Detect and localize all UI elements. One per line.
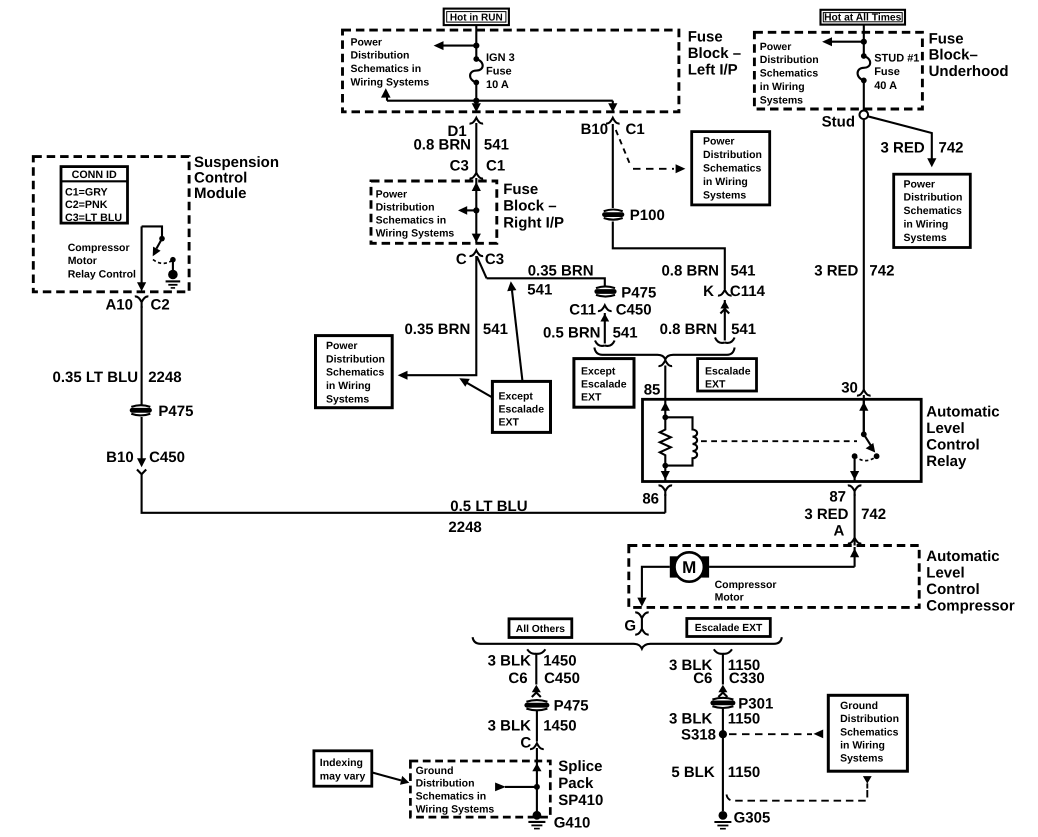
svg-text:P100: P100 <box>630 207 665 224</box>
svg-text:0.8 BRN: 0.8 BRN <box>413 137 471 154</box>
svg-text:0.35 BRN: 0.35 BRN <box>404 321 470 338</box>
svg-text:C3=LT BLU: C3=LT BLU <box>65 212 122 224</box>
svg-text:Right I/P: Right I/P <box>503 214 564 231</box>
label Splice Pack SP410 <box>558 758 603 809</box>
svg-text:S318: S318 <box>681 727 716 744</box>
svg-text:Level: Level <box>926 564 964 581</box>
svg-text:541: 541 <box>484 137 509 154</box>
wire hot at all times down <box>863 25 865 56</box>
svg-text:All Others: All Others <box>516 624 565 635</box>
arrow down exiting right IP <box>472 234 481 243</box>
svg-text:EXT: EXT <box>499 416 520 428</box>
dashed reference line from B10 <box>616 130 686 173</box>
ground (inside module) <box>166 270 181 288</box>
svg-text:Escalade EXT: Escalade EXT <box>695 623 763 634</box>
svg-text:1450: 1450 <box>543 717 576 734</box>
wire D1 to C3 <box>475 123 477 173</box>
title Suspension Control Module <box>194 154 279 202</box>
arrow up pin 30 inside relay <box>859 399 868 434</box>
svg-text:87: 87 <box>829 489 846 506</box>
label B10 C1 <box>581 121 645 138</box>
arrow down pin 87 inside relay <box>850 456 859 481</box>
svg-text:EXT: EXT <box>581 391 602 403</box>
suspension control module dashed box <box>33 157 189 292</box>
arrow up inside splice pack <box>532 763 541 771</box>
box Escalade EXT (near relay) <box>698 359 757 391</box>
title Fuse Block - Right I/P <box>503 181 564 231</box>
label C3 C1 <box>450 158 506 175</box>
svg-text:Automatic: Automatic <box>926 548 999 565</box>
label Compressor Motor <box>715 579 777 603</box>
arrow down at module edge <box>137 282 146 291</box>
wire A10 down <box>141 306 143 405</box>
wire end curl (K branch) <box>715 338 735 343</box>
svg-text:Fuse: Fuse <box>688 29 723 46</box>
svg-text:Distribution: Distribution <box>840 713 899 725</box>
wire escalade branch top <box>714 649 732 684</box>
svg-text:Fuse: Fuse <box>486 66 512 78</box>
splice pack dashed box <box>410 761 550 817</box>
label C11 C450 <box>569 302 651 319</box>
svg-text:Control: Control <box>194 169 247 186</box>
table CONN ID <box>61 167 128 224</box>
connector C <box>530 743 544 749</box>
wire arrow left inside left IP box <box>434 41 477 50</box>
arrow up-left at bus left end <box>381 88 391 100</box>
svg-text:1150: 1150 <box>728 711 761 728</box>
arrow up entering right IP <box>472 182 481 191</box>
svg-text:EXT: EXT <box>705 379 726 391</box>
text Compressor Motor Relay Control <box>68 242 136 281</box>
svg-text:10 A: 10 A <box>486 79 509 91</box>
wire P475 to splice pack <box>536 711 538 742</box>
svg-text:C6: C6 <box>693 670 712 687</box>
arrow up connector C330 <box>718 685 727 697</box>
wire fuse down to bus <box>475 83 477 101</box>
label 0.5 BRN 541 <box>543 325 638 342</box>
svg-text:Suspension: Suspension <box>194 154 279 171</box>
wire fuse to stud <box>863 80 865 110</box>
svg-text:Schematics in: Schematics in <box>416 791 487 803</box>
brace all others / escalade split <box>473 637 782 649</box>
wire brace to relay <box>664 366 666 400</box>
svg-text:A10: A10 <box>105 296 133 313</box>
label All Others box <box>509 619 572 638</box>
arrow down B10 C450 <box>137 458 146 474</box>
wire P100 down and right to K <box>613 222 725 290</box>
label 0.35 BRN 541 (vertical run) <box>404 321 507 338</box>
svg-text:Systems: Systems <box>326 394 369 406</box>
svg-text:Systems: Systems <box>760 94 803 106</box>
svg-text:C2: C2 <box>151 296 170 313</box>
svg-text:Relay Control: Relay Control <box>68 269 136 281</box>
wire bus right end down to B10 <box>612 101 614 104</box>
svg-text:Compressor: Compressor <box>68 242 130 254</box>
wire arrow left inside underhood <box>822 37 864 46</box>
svg-text:Power: Power <box>760 41 792 53</box>
svg-text:C450: C450 <box>149 449 185 466</box>
label 3 RED 742 (pin 87) <box>804 506 886 523</box>
svg-text:in Wiring: in Wiring <box>760 81 805 93</box>
wire 0.35 BRN down from C <box>405 256 477 375</box>
svg-text:C330: C330 <box>729 670 765 687</box>
svg-text:C3: C3 <box>485 251 504 268</box>
svg-text:Wiring Systems: Wiring Systems <box>416 803 495 815</box>
svg-text:Compressor: Compressor <box>926 597 1015 614</box>
svg-text:85: 85 <box>644 381 661 398</box>
svg-text:C114: C114 <box>730 283 766 300</box>
connector 85 feed <box>659 360 673 366</box>
svg-text:G305: G305 <box>734 809 771 826</box>
box Except Escalade EXT (near relay) <box>574 359 634 408</box>
connector C C3 <box>470 250 484 256</box>
label Hot in RUN <box>444 9 509 26</box>
node junction dot underhood <box>861 39 867 45</box>
svg-text:3 RED: 3 RED <box>814 262 858 279</box>
text power distribution schematics in wiring systems (right IP) <box>376 189 455 240</box>
svg-text:0.5 LT BLU: 0.5 LT BLU <box>450 498 527 515</box>
wire motor return to G <box>642 567 670 598</box>
svg-text:0.8 BRN: 0.8 BRN <box>661 262 719 279</box>
svg-text:0.35 BRN: 0.35 BRN <box>528 262 594 279</box>
svg-text:541: 541 <box>527 282 552 299</box>
connector 87 <box>848 485 862 496</box>
wire arrow left inside splice pack <box>495 783 537 792</box>
label C6 C450 <box>508 670 580 687</box>
text power distribution schematics in wiring systems (left IP) <box>351 36 430 88</box>
wire arrow left inside right IP <box>458 206 476 215</box>
connector A10 C2 <box>135 296 149 308</box>
svg-text:541: 541 <box>731 321 756 338</box>
svg-text:Ground: Ground <box>416 765 454 777</box>
svg-text:Wiring Systems: Wiring Systems <box>351 77 430 89</box>
wire P301 to ground <box>722 709 724 812</box>
svg-text:Wiring Systems: Wiring Systems <box>376 228 455 240</box>
svg-text:742: 742 <box>939 140 964 157</box>
box ground distribution schematics <box>828 695 907 771</box>
arrow down into power box (top right) <box>927 158 936 167</box>
svg-text:Control: Control <box>926 436 979 453</box>
fuse block underhood dashed box <box>754 32 922 109</box>
connector 86 <box>659 485 673 496</box>
svg-text:Motor: Motor <box>715 591 744 603</box>
svg-text:B10: B10 <box>106 449 134 466</box>
label 3 RED 742 (mid right) <box>814 262 894 279</box>
brace except-escalade merge <box>594 348 734 360</box>
svg-text:Block –: Block – <box>688 45 741 62</box>
arrow up connector C450 <box>532 685 541 697</box>
wire from Hot in RUN down <box>475 25 477 59</box>
label Escalade EXT box <box>687 619 771 637</box>
svg-text:Control: Control <box>926 581 979 598</box>
svg-text:Fuse: Fuse <box>503 181 538 198</box>
svg-text:Left I/P: Left I/P <box>688 61 738 78</box>
svg-text:Power: Power <box>376 189 408 201</box>
switch compressor motor relay control <box>142 226 176 270</box>
ground G410 <box>528 811 545 829</box>
connector C11 C450 <box>598 305 612 311</box>
wire P100 branch vertical <box>612 124 614 208</box>
label A10 C2 <box>105 296 169 313</box>
svg-text:742: 742 <box>869 262 894 279</box>
label C6 C330 <box>693 670 765 687</box>
label 3 BLK 1150 (lower) <box>669 711 760 728</box>
wire 30 into relay <box>863 395 865 434</box>
dashed reference ground box to G305 <box>727 790 868 801</box>
label 5 BLK 1150 <box>671 764 760 781</box>
wire pin 87 down to compressor <box>854 494 856 546</box>
svg-text:0.8 BRN: 0.8 BRN <box>660 321 718 338</box>
label B10 C450 <box>106 449 185 466</box>
wire diagonal from C3 connector <box>477 257 487 279</box>
svg-text:Schematics: Schematics <box>840 726 899 738</box>
svg-text:30: 30 <box>841 380 858 397</box>
svg-text:in Wiring: in Wiring <box>840 740 885 752</box>
svg-text:Distribution: Distribution <box>416 778 475 790</box>
inductor relay coil <box>665 417 697 465</box>
svg-text:Automatic: Automatic <box>926 403 999 420</box>
node junction dot <box>473 43 479 49</box>
svg-text:Motor: Motor <box>68 255 97 267</box>
splice P475 center <box>594 286 616 296</box>
arrow up pin A inside compressor <box>850 547 859 567</box>
label Hot at All Times <box>821 10 906 25</box>
svg-text:Schematics: Schematics <box>703 163 762 175</box>
svg-text:Escalade: Escalade <box>705 366 751 378</box>
svg-text:541: 541 <box>483 321 508 338</box>
svg-text:Distribution: Distribution <box>326 353 385 365</box>
svg-text:P475: P475 <box>621 284 656 301</box>
svg-text:40 A: 40 A <box>874 80 897 92</box>
connector A <box>848 538 862 544</box>
svg-text:Systems: Systems <box>840 753 883 765</box>
box power distribution schematics (mid left) <box>316 336 393 408</box>
svg-text:Schematics in: Schematics in <box>376 215 447 227</box>
fuse IGN 3 10 A <box>470 52 515 91</box>
dashed reference S318 to ground box <box>729 730 823 739</box>
label Indexing may vary box <box>314 751 372 786</box>
arrow down at compressor edge <box>637 598 646 607</box>
label 0.35 BRN 541 (horizontal run) <box>527 262 593 298</box>
label 0.5 LT BLU 2248 <box>448 498 527 536</box>
svg-text:Distribution: Distribution <box>904 192 963 204</box>
svg-text:Fuse: Fuse <box>929 31 964 48</box>
svg-text:in Wiring: in Wiring <box>326 380 371 392</box>
label 0.8 BRN 541 (below K) <box>660 321 756 338</box>
svg-text:Except: Except <box>581 365 616 377</box>
splice P475 (left) <box>130 405 152 415</box>
wire 0.5 LT BLU long run <box>142 474 666 513</box>
fuse block right IP dashed box <box>371 181 497 243</box>
label 0.8 BRN 541 <box>413 137 508 154</box>
svg-text:Schematics in: Schematics in <box>351 63 422 75</box>
box Except Escalade EXT (callout) <box>492 381 550 432</box>
svg-text:2248: 2248 <box>148 369 181 386</box>
node junction dot on bus <box>473 98 479 104</box>
label C C3 <box>456 251 504 268</box>
relay box automatic level control relay <box>643 399 922 481</box>
svg-text:Underhood: Underhood <box>929 63 1009 80</box>
title Automatic Level Control Relay <box>926 403 999 470</box>
svg-text:Indexing: Indexing <box>320 757 363 769</box>
svg-text:Power: Power <box>703 136 735 148</box>
wire 0.35 BRN horizontal to P475 <box>487 278 605 287</box>
text power distribution schematics (underhood) <box>760 41 819 107</box>
svg-text:Module: Module <box>194 185 247 202</box>
svg-text:Hot in RUN: Hot in RUN <box>450 13 503 24</box>
svg-text:Power: Power <box>326 340 358 352</box>
label 0.8 BRN 541 (above K) <box>661 262 755 279</box>
connector C3 C1 <box>470 173 484 179</box>
svg-text:Ground: Ground <box>840 700 878 712</box>
svg-text:Distribution: Distribution <box>760 54 819 66</box>
svg-text:0.35 LT BLU: 0.35 LT BLU <box>53 369 139 386</box>
svg-text:may vary: may vary <box>320 770 366 782</box>
svg-text:Distribution: Distribution <box>703 149 762 161</box>
wire into splice pack <box>536 748 538 811</box>
label K C114 <box>703 283 765 300</box>
svg-text:3 RED: 3 RED <box>804 506 848 523</box>
svg-text:3 BLK: 3 BLK <box>488 717 532 734</box>
svg-text:Block –: Block – <box>503 198 556 215</box>
arrow down at B10 exit <box>608 103 617 112</box>
title Fuse Block - Underhood <box>929 31 1009 80</box>
ground G305 <box>714 811 731 829</box>
svg-text:Level: Level <box>926 420 964 437</box>
splice P100 <box>602 210 624 220</box>
wire pin 86 down to 0.5 LT BLU <box>664 494 666 513</box>
svg-text:Escalade: Escalade <box>581 378 627 390</box>
svg-text:742: 742 <box>861 506 886 523</box>
svg-text:P475: P475 <box>554 697 589 714</box>
svg-text:K: K <box>703 283 714 300</box>
svg-text:IGN 3: IGN 3 <box>486 52 515 64</box>
svg-text:3 BLK: 3 BLK <box>488 652 532 669</box>
node S318 junction dot <box>719 730 727 738</box>
svg-text:Systems: Systems <box>703 189 746 201</box>
svg-text:Hot at All Times: Hot at All Times <box>824 12 902 23</box>
svg-text:3 RED: 3 RED <box>881 140 925 157</box>
svg-text:541: 541 <box>731 262 756 279</box>
arrow indexing to splice pack <box>372 772 410 784</box>
svg-text:C11: C11 <box>569 302 596 319</box>
svg-text:Pack: Pack <box>558 775 594 792</box>
wire motor feed <box>709 566 855 568</box>
svg-text:Relay: Relay <box>926 453 967 470</box>
arrow up below C11 connector <box>600 313 609 344</box>
svg-text:SP410: SP410 <box>558 792 603 809</box>
wire diagonal from stud to ref arrow <box>868 116 932 158</box>
connector B10 C1 <box>606 118 620 124</box>
label 3 RED 742 (top right) <box>881 140 964 157</box>
svg-text:541: 541 <box>613 325 638 342</box>
label 3 BLK 1450 (lower) <box>488 717 577 734</box>
svg-text:STUD #1: STUD #1 <box>874 52 919 64</box>
svg-text:Systems: Systems <box>904 232 947 244</box>
svg-text:C: C <box>456 251 467 268</box>
box power distribution schematics (top middle) <box>692 132 770 205</box>
label 0.35 LT BLU 2248 <box>53 369 182 386</box>
switch relay contacts <box>852 431 880 460</box>
svg-text:Schematics: Schematics <box>904 205 963 217</box>
node coil bottom junction <box>662 463 668 469</box>
wire stud down to relay 30 <box>863 119 865 390</box>
svg-text:Fuse: Fuse <box>874 66 900 78</box>
svg-text:5 BLK: 5 BLK <box>671 764 715 781</box>
svg-text:Stud: Stud <box>822 114 855 131</box>
arrow left into power box (mid left) <box>398 371 408 380</box>
svg-text:G410: G410 <box>554 814 591 831</box>
title Automatic Level Control Compressor <box>926 548 1015 615</box>
svg-text:Schematics: Schematics <box>326 367 385 379</box>
svg-text:CONN ID: CONN ID <box>72 169 117 181</box>
svg-text:1150: 1150 <box>728 764 761 781</box>
svg-text:Escalade: Escalade <box>499 403 545 415</box>
arrow up below K connector <box>720 300 729 341</box>
svg-text:1450: 1450 <box>543 652 576 669</box>
motor compressor M <box>670 552 709 581</box>
svg-text:M: M <box>682 558 696 577</box>
svg-text:Distribution: Distribution <box>376 202 435 214</box>
svg-text:C3: C3 <box>450 158 469 175</box>
svg-text:C450: C450 <box>544 670 580 687</box>
svg-text:2248: 2248 <box>448 519 481 536</box>
svg-text:G: G <box>624 618 636 635</box>
wire P475 to B10 <box>141 417 143 459</box>
svg-text:C1=GRY: C1=GRY <box>65 187 108 199</box>
arrow down pin 86 inside relay <box>661 466 670 482</box>
svg-text:Power: Power <box>351 36 383 48</box>
arrow up pin 85 inside relay <box>661 399 670 417</box>
splice P301 <box>710 698 735 708</box>
fuse STUD 1 40 A <box>858 52 920 92</box>
dashed actuation line <box>701 440 857 442</box>
text ground distribution schematics (splice pack) <box>416 765 495 815</box>
svg-text:3 BLK: 3 BLK <box>669 711 713 728</box>
box power distribution schematics (top right) <box>894 174 971 247</box>
splice P475 (bottom) <box>524 700 549 710</box>
svg-text:86: 86 <box>642 490 659 507</box>
fuse block left IP dashed box <box>343 30 679 112</box>
svg-text:Splice: Splice <box>558 758 602 775</box>
wire end curl 0.5 BRN <box>595 341 615 346</box>
svg-text:Compressor: Compressor <box>715 579 777 591</box>
resistor relay coil shunt <box>660 417 671 465</box>
compressor dashed box <box>629 546 919 608</box>
svg-text:0.5 BRN: 0.5 BRN <box>543 325 601 342</box>
connector K C114 <box>718 290 732 296</box>
svg-text:Schematics: Schematics <box>760 68 819 80</box>
wire all others branch top <box>527 649 545 684</box>
svg-text:Power: Power <box>904 178 936 190</box>
wire horizontal bus in left IP box <box>387 100 613 102</box>
arrow callout to 0.35 BRN wire <box>507 281 522 381</box>
node SP410 junction dot <box>534 784 540 790</box>
label 3 BLK 1450 (upper) <box>488 652 577 669</box>
title Fuse Block - Left I/P <box>688 29 741 79</box>
svg-text:Block–: Block– <box>929 47 978 64</box>
svg-text:B10: B10 <box>581 121 609 138</box>
svg-text:C2=PNK: C2=PNK <box>65 199 108 211</box>
arrow down at D1 exit <box>472 101 481 113</box>
arrow down below ground box <box>863 776 872 788</box>
svg-text:in Wiring: in Wiring <box>904 219 949 231</box>
arrow callout to wire junction <box>459 378 492 397</box>
node junction dot right IP <box>473 207 479 213</box>
svg-text:C: C <box>520 735 531 752</box>
svg-text:A: A <box>833 522 844 539</box>
node coil top junction <box>662 414 668 420</box>
